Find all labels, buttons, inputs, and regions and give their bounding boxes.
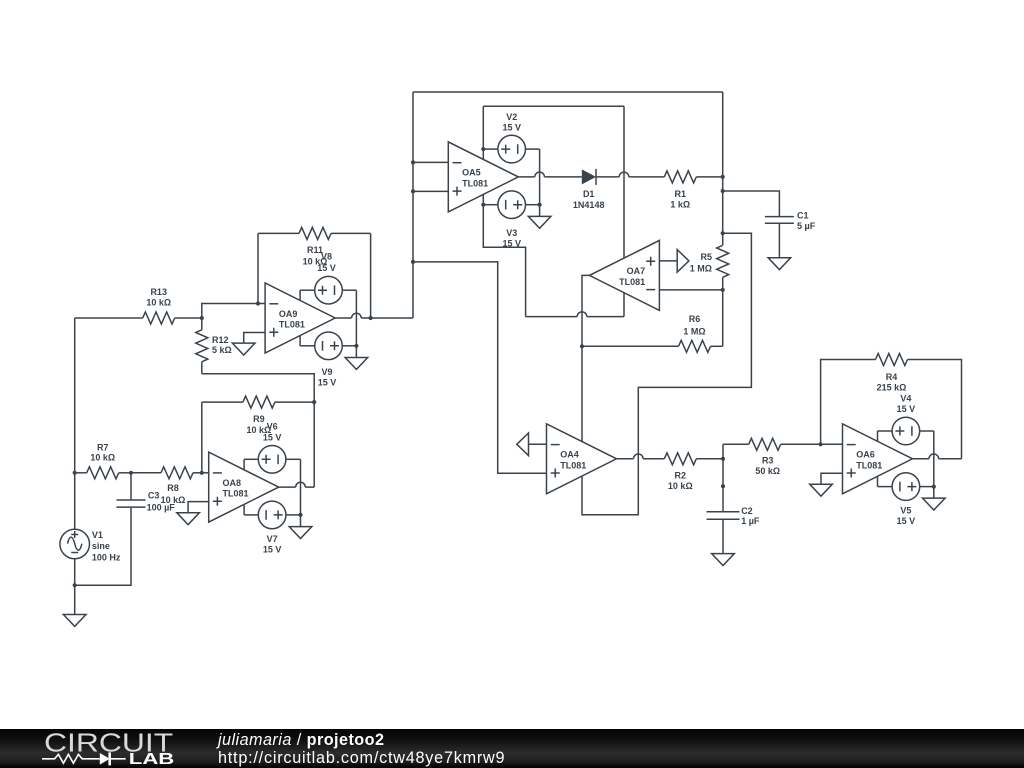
svg-text:15 V: 15 V bbox=[897, 516, 916, 526]
voltage source V9 15V bbox=[315, 332, 343, 360]
svg-text:15 V: 15 V bbox=[317, 263, 336, 273]
wire OA7 V+ pin riser bbox=[623, 106, 625, 258]
resistor R13 zigzag bbox=[143, 312, 175, 324]
svg-text:C2: C2 bbox=[741, 506, 753, 516]
wire V8 right lead bbox=[342, 289, 357, 291]
svg-text:OA4: OA4 bbox=[560, 450, 579, 460]
svg-text:OA8: OA8 bbox=[223, 478, 242, 488]
ground at OA9 + input bbox=[232, 343, 255, 355]
svg-text:1 MΩ: 1 MΩ bbox=[683, 326, 705, 336]
capacitor C3 bbox=[117, 473, 146, 507]
voltage source V8 15V bbox=[315, 276, 343, 304]
svg-text:R9: R9 bbox=[253, 414, 265, 424]
wire ground stem bbox=[300, 515, 302, 527]
wire R11 feedback right bbox=[370, 233, 372, 318]
svg-text:V2: V2 bbox=[506, 112, 517, 122]
wire bbox=[711, 345, 723, 347]
junction R11 right / OA9 output node bbox=[369, 316, 373, 320]
wire R11 feedback left bbox=[257, 233, 259, 303]
svg-text:10 kΩ: 10 kΩ bbox=[668, 481, 693, 491]
junction on C2 branch bbox=[721, 484, 725, 488]
wire V3 right lead bbox=[526, 204, 540, 206]
svg-text:V3: V3 bbox=[506, 228, 517, 238]
net flag arrow at OA7 + input bbox=[677, 250, 689, 273]
wire V5 right lead bbox=[919, 486, 934, 488]
svg-text:OA7: OA7 bbox=[627, 266, 646, 276]
svg-text:215 kΩ: 215 kΩ bbox=[877, 382, 907, 392]
wire OA6 V- pin stub bbox=[877, 476, 879, 486]
svg-text:R3: R3 bbox=[762, 456, 774, 466]
svg-text:V1: V1 bbox=[92, 530, 103, 540]
footer bar bbox=[0, 729, 1024, 768]
svg-text:R2: R2 bbox=[675, 471, 687, 481]
wire V4 right lead bbox=[919, 430, 934, 432]
ground below V9 bbox=[345, 358, 368, 370]
wire OA5 output bbox=[518, 172, 582, 177]
wire top rail bbox=[413, 91, 723, 93]
svg-text:V6: V6 bbox=[267, 421, 278, 431]
wire OA5 + input bbox=[413, 190, 448, 192]
voltage source V5 15V bbox=[892, 473, 920, 501]
svg-text:15 V: 15 V bbox=[263, 545, 282, 555]
wire V5 left lead bbox=[878, 486, 892, 488]
wire V9 right lead bbox=[342, 345, 357, 347]
wire OA7 - input bbox=[659, 289, 722, 291]
resistor R4 bbox=[876, 354, 962, 459]
resistor R12 bbox=[196, 318, 208, 374]
wire V7 left lead bbox=[244, 514, 258, 516]
junction V9 right node bbox=[354, 344, 358, 348]
wire left rail to V1 bbox=[74, 318, 76, 529]
svg-text:R13: R13 bbox=[150, 287, 167, 297]
wire OA4 output bbox=[617, 454, 665, 459]
wire bbox=[696, 458, 723, 460]
svg-text:TL081: TL081 bbox=[856, 460, 882, 470]
voltage source V3 15V bbox=[498, 191, 526, 219]
wire bbox=[201, 362, 203, 374]
svg-text:15 V: 15 V bbox=[318, 378, 337, 388]
svg-text:R6: R6 bbox=[689, 314, 701, 324]
op-amp OA7 TL081 bbox=[589, 240, 659, 310]
svg-text:TL081: TL081 bbox=[279, 320, 305, 330]
svg-text:1 MΩ: 1 MΩ bbox=[690, 264, 712, 274]
op-amp OA8 TL081 bbox=[209, 452, 279, 522]
svg-text:C3: C3 bbox=[148, 490, 160, 500]
svg-text:50 kΩ: 50 kΩ bbox=[755, 466, 780, 476]
wire OA6 + input to ground bbox=[821, 473, 843, 484]
junction V7 right node bbox=[298, 513, 302, 517]
junction R1 right node bbox=[721, 175, 725, 179]
wire ground stem bbox=[355, 346, 357, 358]
wire bbox=[908, 360, 962, 459]
svg-text:V4: V4 bbox=[900, 394, 911, 404]
svg-text:15 V: 15 V bbox=[502, 123, 521, 133]
svg-text:5 µF: 5 µF bbox=[797, 221, 816, 231]
junction R11 left node bbox=[256, 301, 260, 305]
CircuitLab logo bbox=[40, 728, 240, 768]
voltage source V1 sine bbox=[60, 529, 90, 559]
svg-text:1N4148: 1N4148 bbox=[573, 200, 605, 210]
svg-text:R8: R8 bbox=[167, 483, 179, 493]
wire V8 right to V9 right bbox=[355, 290, 357, 346]
resistor R3 zigzag bbox=[749, 438, 781, 450]
voltage source V7 15V bbox=[258, 501, 286, 529]
wire OA8 V+ pin stub bbox=[243, 459, 245, 470]
wire OA8 V- pin stub bbox=[243, 504, 245, 515]
resistor R13 bbox=[75, 287, 202, 324]
wire OA4 - input bbox=[529, 443, 547, 445]
net flag arrow at OA4 - input bbox=[517, 433, 529, 456]
svg-text:1 kΩ: 1 kΩ bbox=[670, 199, 690, 209]
junction V3 right node bbox=[538, 203, 542, 207]
svg-text:TL081: TL081 bbox=[619, 277, 645, 287]
wire bbox=[723, 443, 749, 445]
voltage source V6 15V bbox=[258, 446, 286, 474]
wire bbox=[131, 472, 161, 474]
junction R9 right node bbox=[312, 400, 316, 404]
resistor R8 bbox=[131, 467, 209, 479]
wire to OA9 - input bbox=[202, 304, 265, 319]
wire V6 left lead bbox=[244, 458, 258, 460]
svg-text:TL081: TL081 bbox=[223, 489, 249, 499]
op-amp OA5 TL081 bbox=[448, 142, 518, 212]
wire V7 right lead bbox=[286, 514, 301, 516]
ground below V1 bbox=[63, 615, 86, 627]
wire bbox=[202, 401, 243, 403]
wire bbox=[119, 472, 131, 474]
wire OA6 output bbox=[913, 454, 962, 459]
resistor R7 zigzag bbox=[87, 467, 119, 479]
svg-text:R5: R5 bbox=[700, 252, 712, 262]
wire bbox=[201, 318, 203, 330]
wire OA9 output bbox=[335, 313, 413, 318]
resistor R6 bbox=[582, 340, 723, 352]
svg-text:10 kΩ: 10 kΩ bbox=[146, 298, 171, 308]
wire to C1 bbox=[723, 191, 780, 217]
wire V9 left lead bbox=[300, 345, 314, 347]
wire OA6 - input bbox=[821, 443, 843, 445]
wire OA6 V+ pin stub bbox=[877, 431, 879, 441]
wire riser to R3 bbox=[722, 444, 724, 459]
wire V4 right to V5 right bbox=[933, 431, 935, 487]
wire bbox=[175, 317, 202, 319]
wire bbox=[75, 472, 87, 474]
wire bbox=[275, 401, 314, 403]
wire OA4 + input route bbox=[413, 262, 547, 473]
svg-text:TL081: TL081 bbox=[462, 178, 488, 188]
junction R5 top node bbox=[721, 231, 725, 235]
wire V1 bottom bbox=[74, 559, 76, 585]
svg-text:10 kΩ: 10 kΩ bbox=[90, 453, 115, 463]
junction OA5 + input node bbox=[411, 189, 415, 193]
wire bbox=[193, 472, 209, 474]
resistor R3 bbox=[723, 438, 821, 476]
svg-text:10 kΩ: 10 kΩ bbox=[161, 495, 186, 505]
junction R2/R3/C2 node bbox=[721, 457, 725, 461]
wire OA7 + input bbox=[659, 260, 677, 262]
wire V8 left lead bbox=[300, 289, 314, 291]
resistor R8 zigzag bbox=[161, 467, 193, 479]
resistor R9 bbox=[202, 396, 314, 435]
ground below C1 bbox=[768, 258, 791, 270]
wire V2 right lead bbox=[526, 148, 540, 150]
wire left rail bbox=[412, 92, 414, 318]
junction OA5 - input node bbox=[411, 160, 415, 164]
wire V6 right to V7 right bbox=[300, 459, 302, 515]
wire bbox=[781, 443, 821, 445]
resistor R11 zigzag bbox=[299, 227, 331, 239]
svg-text:V9: V9 bbox=[321, 367, 332, 377]
wire R4 loop left bbox=[821, 360, 876, 445]
wire C2 ground stem bbox=[722, 519, 724, 553]
wire bbox=[582, 345, 679, 347]
resistor R5 zigzag bbox=[717, 245, 729, 277]
wire OA5 V+ pin bbox=[482, 106, 484, 159]
junction OA7 - node bbox=[721, 288, 725, 292]
svg-text:15 V: 15 V bbox=[502, 239, 521, 249]
junction OA4 + branch node bbox=[411, 260, 415, 264]
junction C1 branch node bbox=[721, 189, 725, 193]
wire bbox=[130, 473, 132, 500]
voltage source V4 15V bbox=[892, 417, 920, 445]
wire bbox=[75, 317, 143, 319]
junction R13/R12 node bbox=[200, 316, 204, 320]
wire OA5 V- route down bbox=[483, 194, 525, 316]
svg-text:R1: R1 bbox=[675, 189, 687, 199]
resistor R6 zigzag bbox=[679, 340, 711, 352]
wire V3 left lead bbox=[483, 204, 498, 206]
wire V- route horizontal bbox=[526, 312, 624, 317]
svg-text:5 kΩ: 5 kΩ bbox=[212, 345, 232, 355]
resistor R11 bbox=[258, 227, 371, 266]
wire bbox=[696, 176, 722, 178]
wire OA8 + input to ground bbox=[188, 502, 209, 513]
junction V3 left node bbox=[481, 203, 485, 207]
junction V2 left node bbox=[481, 147, 485, 151]
svg-text:OA6: OA6 bbox=[856, 450, 875, 460]
svg-text:15 V: 15 V bbox=[897, 404, 916, 414]
wire R9 feedback left bbox=[201, 402, 203, 473]
ground below V3 bbox=[528, 216, 551, 228]
resistor R9 zigzag bbox=[243, 396, 275, 408]
wire V2 left lead bbox=[483, 148, 498, 150]
wire second rail bbox=[483, 105, 624, 107]
wire V6 right lead bbox=[286, 458, 301, 460]
op-amp OA6 TL081 bbox=[843, 424, 913, 494]
op-amp OA9 TL081 bbox=[265, 283, 335, 353]
wire D1 to R1 bbox=[596, 172, 664, 177]
wire C3 bottom to V1 bottom bbox=[75, 507, 131, 585]
voltage source V2 15V bbox=[498, 135, 526, 163]
junction V5 right node bbox=[932, 485, 936, 489]
wire V4 left lead bbox=[878, 430, 892, 432]
svg-text:TL081: TL081 bbox=[560, 460, 586, 470]
wire OA5 - input bbox=[413, 161, 448, 163]
resistor R2 bbox=[664, 453, 723, 491]
svg-text:100 Hz: 100 Hz bbox=[92, 553, 121, 563]
svg-text:V5: V5 bbox=[900, 505, 911, 515]
capacitor C1 bbox=[765, 217, 794, 224]
wire OA4 V- route bbox=[582, 233, 751, 515]
wire OA9 + input to ground bbox=[244, 333, 265, 344]
wire bbox=[331, 232, 371, 234]
resistor R4 zigzag bbox=[876, 354, 908, 366]
svg-text:V7: V7 bbox=[267, 534, 278, 544]
wire C1 ground stem bbox=[778, 223, 780, 258]
svg-text:sine: sine bbox=[92, 541, 110, 551]
wire OA9 V+ pin stub bbox=[299, 290, 301, 300]
op-amp OA4 TL081 bbox=[547, 424, 617, 494]
svg-text:C1: C1 bbox=[797, 210, 809, 220]
junction R6 left node bbox=[580, 344, 584, 348]
wire V2 right to V3 right bbox=[539, 149, 541, 205]
ground below V5 bbox=[923, 498, 946, 510]
svg-text:V8: V8 bbox=[321, 252, 332, 262]
resistor R1 zigzag bbox=[664, 171, 696, 183]
logo resistor-diode doodle bbox=[42, 754, 100, 763]
capacitor C2 bbox=[707, 512, 740, 520]
wire OA9 V- pin stub bbox=[299, 335, 301, 345]
wire bbox=[258, 232, 299, 234]
ground at OA8 + input bbox=[177, 513, 200, 525]
wire right rail lower bbox=[722, 277, 724, 346]
svg-text:1 µF: 1 µF bbox=[741, 516, 760, 526]
wire OA7 output down to OA4 V+ bbox=[582, 275, 589, 441]
junction R7 left node bbox=[73, 471, 77, 475]
ground at OA6 + input bbox=[810, 484, 833, 496]
wire right rail upper bbox=[722, 92, 724, 245]
resistor R2 zigzag bbox=[664, 453, 696, 465]
wire ground stem bbox=[933, 487, 935, 499]
junction V1 bottom node bbox=[73, 583, 77, 587]
wire OA7 V- pin stub bbox=[623, 293, 625, 317]
footer title text bbox=[218, 731, 505, 768]
svg-text:R7: R7 bbox=[97, 442, 109, 452]
svg-text:15 V: 15 V bbox=[263, 432, 282, 442]
wire OA8 output riser to R12 bbox=[202, 374, 314, 487]
ground below V7 bbox=[289, 527, 312, 539]
junction R3/R4/OA6 - node bbox=[819, 442, 823, 446]
svg-text:R12: R12 bbox=[212, 335, 229, 345]
wire ground stem bbox=[74, 585, 76, 614]
resistor R1 bbox=[664, 171, 722, 209]
wire OA8 output bbox=[279, 482, 315, 487]
wire down to C2 bbox=[722, 459, 724, 512]
resistor R12 zigzag bbox=[196, 330, 208, 362]
resistor R7 bbox=[75, 442, 131, 479]
diode D1 1N4148 bbox=[582, 169, 596, 185]
junction R8/R9 feedback node bbox=[200, 471, 204, 475]
wire ground stem bbox=[539, 205, 541, 217]
ground below C2 bbox=[712, 554, 735, 566]
svg-text:R4: R4 bbox=[886, 372, 898, 382]
svg-text:LAB: LAB bbox=[129, 751, 175, 768]
svg-text:D1: D1 bbox=[583, 189, 595, 199]
svg-text:OA5: OA5 bbox=[462, 168, 481, 178]
svg-text:OA9: OA9 bbox=[279, 309, 298, 319]
junction R7/C3/R8 node bbox=[129, 471, 133, 475]
